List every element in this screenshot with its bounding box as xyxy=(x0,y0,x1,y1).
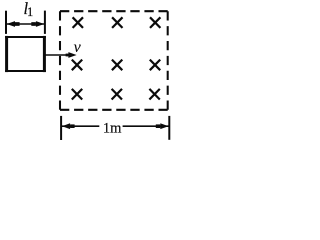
dimension l1 right arrowhead xyxy=(36,21,44,27)
field mark x row2 col2 xyxy=(112,60,122,71)
field region dashed left edge xyxy=(59,11,61,110)
field mark x row2 col3 xyxy=(150,60,160,71)
field mark x row3 col2 xyxy=(112,89,122,100)
dimension l1 right extension tick xyxy=(44,11,46,34)
dimension 1m line left segment xyxy=(62,125,100,127)
dimension l1 left arrowhead xyxy=(7,21,15,27)
field region dashed right edge xyxy=(167,11,169,110)
dimension l1 line xyxy=(7,23,45,25)
svg-text:v: v xyxy=(74,39,82,56)
dimension 1m left extension tick xyxy=(60,116,62,140)
conductor loop left side xyxy=(5,36,8,72)
dimension l1 left extension tick xyxy=(5,11,7,34)
velocity arrow line xyxy=(45,54,69,56)
field mark x row1 col1 xyxy=(73,17,83,28)
field mark x row1 col2 xyxy=(112,17,122,28)
field mark x row3 col1 xyxy=(72,89,82,100)
velocity arrowhead xyxy=(66,54,69,57)
field region dashed top edge xyxy=(60,10,168,12)
field mark x row1 col3 xyxy=(150,17,160,28)
dimension 1m right extension tick xyxy=(168,116,170,140)
field region dashed bottom edge xyxy=(60,109,168,111)
svg-text:1m: 1m xyxy=(103,120,122,136)
field mark x row3 col3 xyxy=(149,89,159,100)
dimension 1m right arrowhead xyxy=(160,123,168,129)
field mark x row2 col1 xyxy=(72,60,82,71)
conductor loop top side xyxy=(5,36,46,38)
conductor loop bottom side xyxy=(5,70,46,72)
svg-text:1: 1 xyxy=(27,5,33,19)
dimension 1m line right segment xyxy=(123,125,169,127)
conductor loop right side xyxy=(43,36,46,72)
dimension 1m left arrowhead xyxy=(62,123,70,129)
